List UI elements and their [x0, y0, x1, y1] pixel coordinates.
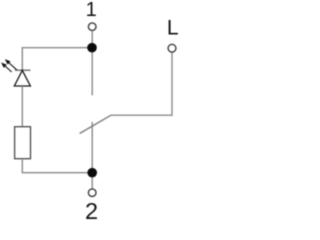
LED arrow 2: [2, 64, 12, 73]
junction A dot: [87, 43, 97, 53]
svg-text:2: 2: [85, 198, 98, 220]
terminal circle 1: [88, 23, 96, 31]
LED triangle D1: [14, 70, 30, 86]
LED arrow 1: [6, 60, 17, 70]
wire junction A to switch top contact: [91, 48, 93, 96]
wire blade to L corner: [111, 114, 172, 116]
terminal circle 2: [88, 189, 96, 197]
svg-text:1: 1: [86, 0, 97, 21]
switch S1 blade: [80, 115, 111, 133]
resistor R1: [15, 127, 31, 159]
LED cathode bar: [15, 69, 31, 71]
junction B dot: [87, 168, 97, 178]
wire junction A left: [22, 47, 92, 49]
svg-text:L: L: [167, 17, 179, 40]
wire switch bottom lead through junction B to terminal 2: [91, 122, 93, 189]
wire down to LED: [21, 47, 23, 70]
wire up to terminal L: [171, 52, 173, 116]
terminal circle L: [168, 44, 176, 52]
wire LED to resistor: [21, 86, 23, 127]
wire resistor down and right to junction B: [22, 159, 92, 173]
wire terminal1 to junction A: [91, 31, 93, 44]
